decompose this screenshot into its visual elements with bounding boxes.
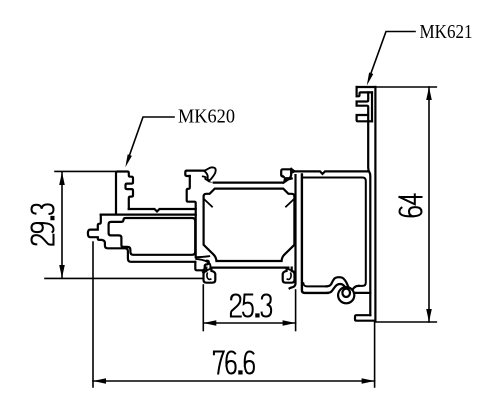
frame bottom dome outer line	[328, 284, 345, 293]
dim 76.6 left extension line	[92, 242, 94, 387]
dim 29.3 bottom extension line	[45, 277, 203, 279]
foot stub bottom-left	[203, 269, 211, 272]
arrow 29.3 up	[59, 172, 65, 185]
frame top edge	[357, 86, 376, 88]
frame left wall	[302, 175, 328, 293]
label MK621 leader	[371, 32, 416, 75]
frame loop to bar upper line	[353, 286, 359, 290]
dim 25.3 right extension line	[295, 290, 297, 331]
dim 29.3 line	[61, 172, 63, 278]
frame bar right edge	[374, 87, 376, 321]
arrow 29.3 down	[59, 265, 65, 278]
bead post outline	[116, 172, 133, 214]
arrow 25.3 right	[283, 320, 296, 326]
bead chamber interior	[109, 218, 196, 255]
dim 64 top extension line	[375, 86, 436, 88]
sash top-right tower head underside	[281, 175, 284, 177]
chamber top-right S into right tower	[283, 173, 291, 183]
bead web bottom line	[101, 214, 196, 216]
chamber bottom second line	[211, 267, 289, 269]
sash top-left tower flag	[204, 167, 216, 180]
arrow 76.6 right	[362, 378, 375, 384]
frame bar bottom foot	[355, 315, 375, 321]
sash top-left tower head	[185, 171, 203, 176]
frame bar left edge	[368, 115, 370, 315]
arrow 64 up	[426, 87, 432, 100]
screw channel slots	[357, 92, 372, 121]
arrow 64 down	[426, 309, 432, 322]
dim 29.3 top extension line	[55, 170, 115, 172]
dim 25.3 line	[203, 322, 295, 324]
sash bottom-right foot	[283, 268, 295, 283]
dim 76.6 line	[93, 380, 375, 382]
bead hook outer edge	[88, 215, 195, 262]
label MK621 arrowhead	[367, 73, 374, 86]
dim 64 bottom extension line	[375, 321, 436, 323]
arrow 76.6 left	[93, 378, 106, 384]
corner stub top-left	[205, 200, 212, 207]
foot interior curl left	[207, 273, 211, 279]
sash top-right tower underside wedge	[283, 177, 293, 182]
dim text 76.6	[214, 352, 254, 374]
sash right wall outer	[290, 175, 296, 288]
frame lower web line to bar	[354, 292, 370, 294]
tower head underside right	[203, 175, 206, 178]
dim text 25.3	[231, 295, 271, 317]
frame bottom dome inner line	[327, 277, 349, 286]
label MK620 leader	[128, 117, 174, 160]
frame shelf top line with notch	[291, 169, 368, 174]
chamber top outer line	[214, 182, 283, 184]
frame screw channel outer lip	[357, 87, 372, 96]
chamber interior contour	[204, 189, 295, 261]
sash left wall bottom horn upper	[196, 256, 209, 257]
arrow 25.3 left	[203, 320, 216, 326]
corner stub top-right	[286, 200, 293, 207]
svg-text:MK621: MK621	[420, 21, 473, 43]
frame gasket hole	[342, 289, 350, 297]
sash top-left tower left side and wall left edge	[187, 176, 196, 257]
dim text 29.3	[32, 204, 54, 244]
sash left wall bottom horn lower	[196, 259, 210, 268]
svg-text:MK620: MK620	[178, 106, 235, 128]
bead web top line with notch	[129, 209, 196, 212]
dim text 64	[400, 194, 422, 216]
frame box interior	[303, 178, 366, 287]
bead bottom flange end hook	[195, 261, 209, 271]
foot interior curl right	[287, 273, 291, 279]
dim 25.3 left extension line	[202, 285, 204, 331]
screw channel inner wall	[371, 92, 373, 121]
sash top-right tower head	[281, 169, 294, 176]
dim 76.6 right extension line	[374, 322, 376, 387]
dim 64 line	[428, 87, 430, 322]
frame gasket loop outer	[338, 287, 354, 303]
label MK620 arrowhead	[125, 154, 132, 167]
sash bottom-left foot	[204, 268, 216, 283]
foot stub bottom-right	[287, 269, 295, 272]
flag underside wedge	[204, 177, 213, 183]
